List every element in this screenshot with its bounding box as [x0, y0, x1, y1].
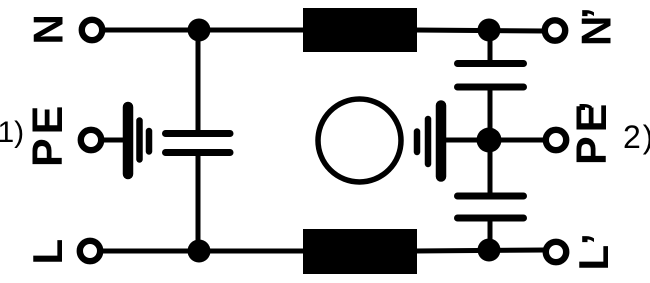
wire choke L1 to N' [415, 30, 544, 31]
Y-capacitor C3 plates [458, 196, 524, 218]
wire Y-cap2 to L' line [488, 220, 493, 250]
chassis ground left [128, 107, 149, 174]
terminal L' [546, 242, 566, 262]
wire Y-cap1 upper leg [488, 30, 493, 61]
svg-text:PE: PE [24, 102, 72, 167]
wire PE stub [102, 138, 124, 143]
wire X-cap lower leg [196, 155, 201, 251]
svg-text:’: ’ [573, 7, 620, 19]
svg-text:2): 2) [623, 119, 650, 155]
chassis ground right [417, 106, 441, 177]
svg-text:N: N [573, 16, 620, 46]
choke L1 [303, 8, 417, 52]
wire Y-cap1 lower leg to PE' node [488, 89, 493, 141]
junction N / X-cap [188, 19, 211, 42]
junction PE' node [477, 128, 502, 153]
terminal N' [545, 20, 565, 40]
svg-text:’: ’ [573, 233, 620, 245]
wire X-cap upper leg [196, 30, 201, 131]
wire choke L2 to L' [415, 250, 545, 251]
svg-text:N: N [25, 14, 72, 44]
junction N' / Y-cap1 [478, 19, 501, 42]
terminal N [82, 20, 102, 40]
junction L' / Y-cap2 [478, 239, 501, 262]
svg-text:’: ’ [571, 101, 619, 113]
wire PE' node to Y-cap2 [488, 140, 493, 194]
svg-text:L: L [24, 239, 71, 265]
svg-text:L: L [570, 245, 617, 271]
terminal PE [81, 130, 101, 150]
choke L2 [303, 229, 417, 274]
wire N to choke L1 [103, 28, 305, 33]
wire L to choke L2 [101, 249, 305, 254]
junction L / X-cap [188, 240, 211, 263]
load circle [318, 99, 401, 182]
terminal PE' [546, 130, 566, 150]
wire ground to PE' [444, 138, 545, 143]
X-capacitor C1 plates [166, 134, 231, 153]
svg-text:1): 1) [0, 116, 24, 149]
Y-capacitor C2 plates [458, 64, 524, 88]
terminal L [80, 241, 100, 261]
